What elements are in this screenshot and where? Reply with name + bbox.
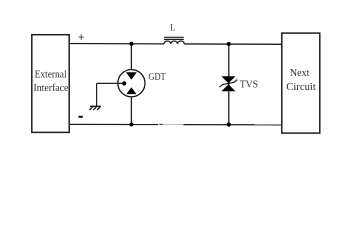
wire: top rail right segment — [184, 43, 281, 45]
node: bottom-right junction — [227, 123, 231, 127]
wire: TVS branch vertical — [228, 44, 230, 125]
svg-text:External: External — [35, 69, 67, 81]
inductor L — [164, 37, 184, 44]
svg-text:Interface: Interface — [34, 82, 69, 94]
label + (positive terminal) — [79, 35, 84, 40]
wire: bottom rail faded middle segment — [158, 123, 184, 125]
svg-text:L: L — [170, 23, 176, 33]
wire: GDT bottom branch — [130, 97, 132, 125]
svg-text:GDT: GDT — [148, 72, 166, 83]
wire: GDT to ground horizontal — [97, 82, 125, 84]
svg-text:Next: Next — [290, 67, 310, 79]
TVS diode (bidirectional) — [220, 76, 238, 91]
block: Next Circuit — [282, 33, 320, 133]
ground (chassis) — [89, 106, 101, 110]
wire: top rail left segment — [69, 43, 164, 45]
label - (negative terminal) — [78, 116, 82, 118]
gas discharge tube GDT — [118, 70, 145, 97]
wire: bottom rail left segment — [69, 123, 158, 125]
wire: GDT top branch — [130, 44, 132, 70]
node: top-left junction — [129, 42, 133, 46]
node: bottom-left junction — [129, 122, 133, 126]
node: top-right junction — [227, 42, 231, 46]
wire: bottom rail right segment — [184, 124, 282, 126]
block: External Interface — [32, 35, 69, 133]
svg-text:TVS: TVS — [240, 79, 258, 91]
svg-text:Circuit: Circuit — [286, 81, 316, 93]
wire: ground branch vertical — [96, 83, 98, 106]
